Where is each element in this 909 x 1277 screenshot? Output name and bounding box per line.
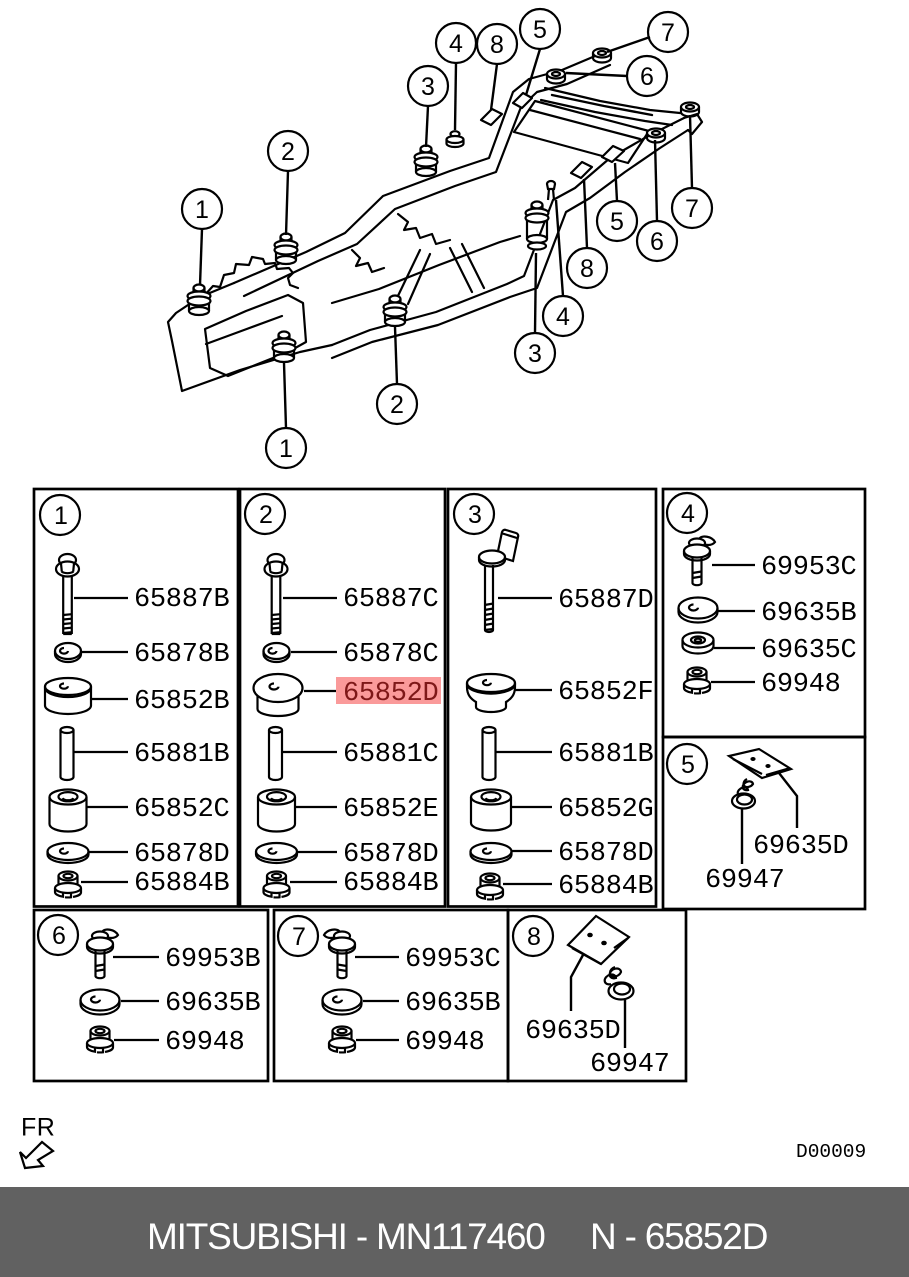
svg-text:3: 3 xyxy=(421,73,435,101)
svg-text:69635D: 69635D xyxy=(753,832,848,862)
svg-text:65881B: 65881B xyxy=(558,740,654,770)
svg-text:69635B: 69635B xyxy=(405,989,501,1019)
svg-text:2: 2 xyxy=(281,138,295,166)
svg-text:3: 3 xyxy=(468,501,482,529)
svg-text:7: 7 xyxy=(292,923,306,951)
svg-text:65852E: 65852E xyxy=(343,795,438,825)
svg-text:65887C: 65887C xyxy=(343,585,439,615)
svg-text:5: 5 xyxy=(533,16,547,44)
svg-text:7: 7 xyxy=(685,195,699,223)
svg-text:65884B: 65884B xyxy=(343,869,439,899)
svg-text:65852D: 65852D xyxy=(343,679,438,709)
svg-text:1: 1 xyxy=(54,502,68,530)
svg-text:69948: 69948 xyxy=(761,670,841,700)
svg-text:69635B: 69635B xyxy=(165,989,261,1019)
svg-text:8: 8 xyxy=(490,31,504,59)
svg-text:5: 5 xyxy=(681,751,695,779)
svg-text:65878D: 65878D xyxy=(134,840,229,870)
svg-text:69635C: 69635C xyxy=(761,636,857,666)
svg-text:65878D: 65878D xyxy=(343,840,438,870)
svg-text:65878C: 65878C xyxy=(343,640,439,670)
svg-text:65852B: 65852B xyxy=(134,687,230,717)
svg-text:65884B: 65884B xyxy=(558,872,654,902)
svg-text:65881B: 65881B xyxy=(134,740,230,770)
svg-text:65881C: 65881C xyxy=(343,740,439,770)
svg-text:5: 5 xyxy=(610,208,624,236)
svg-text:65884B: 65884B xyxy=(134,869,230,899)
svg-text:N - 65852D: N - 65852D xyxy=(590,1216,767,1257)
svg-text:2: 2 xyxy=(390,391,404,419)
svg-text:69953C: 69953C xyxy=(761,553,857,583)
svg-text:69947: 69947 xyxy=(705,866,785,896)
svg-text:65852G: 65852G xyxy=(558,795,653,825)
svg-text:D00009: D00009 xyxy=(796,1141,866,1163)
svg-text:65852C: 65852C xyxy=(134,795,230,825)
svg-text:69953C: 69953C xyxy=(405,945,501,975)
svg-text:6: 6 xyxy=(650,228,664,256)
svg-text:8: 8 xyxy=(580,255,594,283)
svg-text:1: 1 xyxy=(195,196,209,224)
svg-text:69948: 69948 xyxy=(405,1028,485,1058)
svg-text:4: 4 xyxy=(449,30,463,58)
svg-text:6: 6 xyxy=(52,922,66,950)
svg-text:2: 2 xyxy=(259,501,273,529)
svg-text:6: 6 xyxy=(640,63,654,91)
svg-text:FR: FR xyxy=(21,1114,55,1142)
svg-text:69635D: 69635D xyxy=(525,1017,620,1047)
svg-text:69953B: 69953B xyxy=(165,945,261,975)
svg-text:65887D: 65887D xyxy=(558,586,653,616)
svg-text:65852F: 65852F xyxy=(558,678,653,708)
svg-text:8: 8 xyxy=(527,923,541,951)
svg-text:69947: 69947 xyxy=(590,1050,670,1080)
svg-text:1: 1 xyxy=(279,435,293,463)
svg-text:69948: 69948 xyxy=(165,1028,245,1058)
svg-text:7: 7 xyxy=(661,19,675,47)
svg-text:4: 4 xyxy=(681,500,695,528)
svg-text:65878D: 65878D xyxy=(558,839,653,869)
svg-text:MITSUBISHI - MN117460: MITSUBISHI - MN117460 xyxy=(147,1216,545,1257)
svg-text:65878B: 65878B xyxy=(134,640,230,670)
svg-text:65887B: 65887B xyxy=(134,585,230,615)
svg-text:69635B: 69635B xyxy=(761,599,857,629)
svg-text:4: 4 xyxy=(556,303,570,331)
svg-text:3: 3 xyxy=(528,340,542,368)
